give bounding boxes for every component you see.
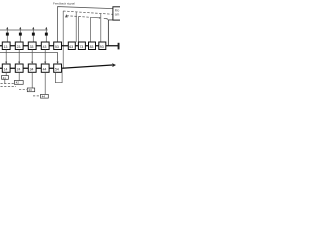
box 24 [15,64,23,72]
svg-text:42: 42 [16,81,20,85]
wire output of top-right box down to bus [108,20,113,46]
svg-text:83: 83 [90,45,94,49]
wire col4 down to box D [44,72,46,94]
tap 3 vertical [32,27,34,42]
box 14 [2,64,10,72]
wire dashed clock line b [1,85,17,87]
wire col 4 vertical rows [44,50,46,63]
wire col 3 vertical rows [31,50,33,63]
svg-text:33: 33 [30,45,34,49]
arrowhead output bus 2 [112,63,116,67]
tap 3 arrowhead [32,27,34,29]
svg-text:43: 43 [29,88,33,92]
box 63 [68,42,75,50]
wire main bus row 1 [0,45,118,47]
svg-text:23: 23 [17,45,21,49]
wire pass-through vertical to lower bus [62,11,64,68]
box 43 [41,42,49,50]
wire dashed stub to box C [19,89,27,91]
arrowhead into box 54 [57,62,59,64]
svg-text:13: 13 [4,45,8,49]
tap 4 weight square [45,33,48,36]
wire loop below box 54 [55,68,62,83]
box 53 [54,42,62,50]
svg-text:73: 73 [80,45,84,49]
box 93 [99,42,106,50]
tap 4 vertical [45,27,47,42]
box 54 [54,64,62,72]
box 34 [28,64,36,72]
svg-text:53: 53 [55,45,59,49]
svg-text:63: 63 [69,45,73,49]
svg-text:Feedback signal: Feedback signal [53,1,75,5]
box 23 [15,42,23,50]
wire stub below line2 near box [104,19,107,20]
wire dashed stub to box D [33,95,41,97]
wire col1 down to box A [5,72,7,75]
wire dashed control line 1 [63,11,113,14]
wire tap header line [0,29,48,31]
wire dashed control line 2 [66,16,90,18]
box 73 [78,42,85,50]
svg-text:14: 14 [4,67,8,71]
tap 4 arrowhead [45,27,47,29]
svg-text:24: 24 [17,67,21,71]
svg-text:44: 44 [43,67,47,71]
wire feedback line top [58,7,113,42]
wire vertical into box 73 b [78,17,80,43]
wire col3 down to box C [31,72,33,88]
svg-text:93: 93 [100,45,104,49]
svg-text:43: 43 [43,45,47,49]
box U10 top right [113,7,122,20]
svg-text:41: 41 [3,76,7,80]
box 33 [28,42,36,50]
svg-text:54: 54 [55,67,59,71]
terminator bar right end of bus 1 [118,43,120,50]
tap 2 weight square [19,33,22,36]
box A phi1 [2,76,9,80]
svg-text:44: 44 [42,95,46,99]
wire vertical into box 93 [100,14,102,43]
box 83 [89,42,96,50]
tap 2 vertical [19,27,21,42]
wire vertical into box 83 [90,17,92,42]
box 13 [2,42,10,50]
svg-text:34: 34 [30,67,34,71]
box C phi3 [27,88,34,92]
wire vertical into box 73 a [75,12,77,42]
wire sub line below row 1 [0,53,58,63]
box D phi4 [41,94,49,98]
tap 3 weight square [32,33,35,36]
wire dashed clock line a [1,83,15,85]
wire col 1 vertical rows [5,50,7,63]
tap 1 vertical [6,27,8,42]
tap 1 arrowhead [6,27,8,29]
wire vertical into box 63 [65,16,67,43]
tap 1 weight square [6,33,9,36]
wire below box A [4,79,6,83]
svg-text:am: am [115,13,120,17]
tap 2 arrowhead [19,27,21,29]
wire col 2 vertical rows [18,50,20,63]
wire main bus row 2 [0,65,112,68]
wire col2 down to box B [18,72,20,80]
box B phi2 [14,81,23,85]
box 44 [41,64,49,72]
